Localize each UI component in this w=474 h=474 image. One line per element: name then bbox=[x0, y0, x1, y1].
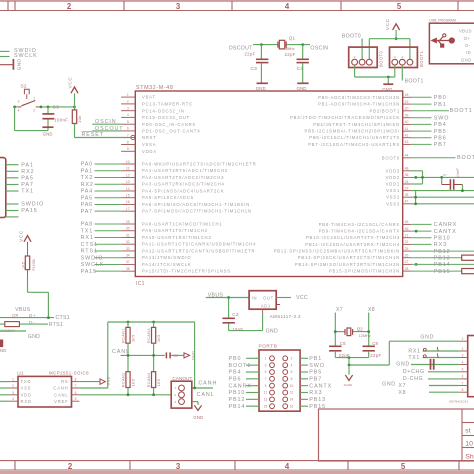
svg-text:BOOT1: BOOT1 bbox=[405, 79, 424, 85]
svg-text:7: 7 bbox=[127, 133, 129, 137]
svg-text:C6: C6 bbox=[340, 341, 346, 346]
svg-text:47: 47 bbox=[405, 200, 409, 204]
svg-text:7: 7 bbox=[265, 377, 267, 381]
svg-text:X8: X8 bbox=[368, 307, 375, 313]
svg-text:PA7: PA7 bbox=[81, 209, 94, 215]
svg-text:RTS1: RTS1 bbox=[81, 249, 98, 255]
svg-text:USB_PROGRAM: USB_PROGRAM bbox=[429, 18, 456, 22]
svg-text:AGND: AGND bbox=[344, 383, 352, 387]
svg-text:8: 8 bbox=[127, 140, 129, 144]
svg-text:1: 1 bbox=[33, 97, 35, 101]
svg-text:SWCLK: SWCLK bbox=[81, 262, 105, 268]
svg-text:PA1: PA1 bbox=[81, 168, 94, 174]
svg-text:40: 40 bbox=[405, 120, 409, 124]
svg-text:10: 10 bbox=[290, 384, 294, 388]
svg-text:1: 1 bbox=[265, 357, 267, 361]
svg-text:C2: C2 bbox=[232, 312, 239, 318]
svg-text:RS: RS bbox=[61, 379, 68, 384]
svg-text:SWO: SWO bbox=[434, 115, 450, 121]
svg-text:PB8-TIM4CH3-I2C1SCL/CANRX: PB8-TIM4CH3-I2C1SCL/CANRX bbox=[319, 222, 400, 227]
svg-text:VSS2: VSS2 bbox=[386, 195, 400, 200]
svg-text:GND: GND bbox=[461, 57, 472, 62]
svg-text:6: 6 bbox=[127, 127, 129, 131]
svg-text:3: 3 bbox=[12, 391, 14, 395]
svg-text:ADJ: ADJ bbox=[261, 304, 271, 309]
svg-text:39: 39 bbox=[405, 114, 409, 118]
svg-text:6: 6 bbox=[75, 391, 77, 395]
svg-text:8: 8 bbox=[291, 377, 293, 381]
svg-text:PB12: PB12 bbox=[434, 249, 451, 255]
svg-text:45: 45 bbox=[405, 220, 409, 224]
svg-text:42: 42 bbox=[405, 134, 409, 138]
svg-text:PA14/JTCK/SWCLK: PA14/JTCK/SWCLK bbox=[142, 262, 192, 267]
svg-text:PA6-SPI1MISO/ADC6/TIM3CH1-TIM1: PA6-SPI1MISO/ADC6/TIM3CH1-TIM1BKIN bbox=[142, 202, 250, 207]
svg-text:2: 2 bbox=[68, 462, 73, 471]
svg-text:PB14: PB14 bbox=[434, 262, 451, 268]
svg-text:22pF: 22pF bbox=[285, 52, 296, 57]
svg-text:GND: GND bbox=[193, 415, 203, 420]
svg-text:37: 37 bbox=[126, 260, 130, 264]
svg-text:PA4-SPI1NSS/ADC4/USART2CK: PA4-SPI1NSS/ADC4/USART2CK bbox=[142, 188, 224, 193]
svg-text:PB9-TIM4CH4-I2C1SDA/CANTX: PB9-TIM4CH4-I2C1SDA/CANTX bbox=[319, 229, 400, 234]
svg-text:22R: 22R bbox=[12, 313, 19, 317]
svg-text:SWCLK: SWCLK bbox=[14, 53, 38, 59]
svg-text:C5: C5 bbox=[53, 104, 60, 109]
svg-text:PB15-SPI2MOSI/TIM1CH3N: PB15-SPI2MOSI/TIM1CH3N bbox=[329, 269, 400, 274]
svg-text:11: 11 bbox=[126, 167, 130, 171]
svg-text:12: 12 bbox=[126, 173, 130, 177]
svg-text:ID: ID bbox=[466, 50, 471, 55]
svg-text:PA7-SPI1MOSI/ADC7/TIM3CH2-TIM1: PA7-SPI1MOSI/ADC7/TIM3CH2-TIM1CH1N bbox=[142, 209, 252, 214]
svg-text:FUSB: FUSB bbox=[32, 259, 36, 271]
svg-text:GND: GND bbox=[382, 87, 392, 92]
svg-text:35: 35 bbox=[405, 193, 409, 197]
svg-text:7: 7 bbox=[462, 381, 464, 385]
svg-text:2: 2 bbox=[291, 357, 293, 361]
svg-text:VBUS: VBUS bbox=[208, 292, 224, 298]
svg-text:BOOT0: BOOT0 bbox=[342, 34, 361, 40]
svg-text:PB5-I2C1SMBAI-TIM3CH2/SPI1MOSI: PB5-I2C1SMBAI-TIM3CH2/SPI1MOSI bbox=[305, 129, 400, 134]
svg-text:PB14: PB14 bbox=[229, 404, 246, 410]
svg-text:VCC: VCC bbox=[18, 230, 24, 242]
svg-text:PA7: PA7 bbox=[21, 182, 34, 188]
svg-text:4: 4 bbox=[18, 109, 20, 113]
svg-text:2: 2 bbox=[462, 347, 464, 351]
svg-text:3: 3 bbox=[176, 2, 181, 11]
svg-text:VCC: VCC bbox=[68, 77, 74, 89]
svg-text:TX1: TX1 bbox=[21, 189, 34, 195]
svg-text:1: 1 bbox=[12, 378, 14, 382]
svg-text:31: 31 bbox=[126, 233, 130, 237]
svg-text:CANTX: CANTX bbox=[309, 383, 332, 389]
svg-text:RX1: RX1 bbox=[408, 349, 420, 355]
svg-text:VDD: VDD bbox=[21, 392, 32, 397]
svg-text:3: 3 bbox=[265, 363, 267, 367]
svg-text:BOOT0: BOOT0 bbox=[382, 155, 400, 160]
svg-text:SWDIO: SWDIO bbox=[21, 202, 44, 208]
svg-text:4: 4 bbox=[12, 397, 14, 401]
svg-text:CANL: CANL bbox=[54, 392, 68, 397]
svg-text:VCC: VCC bbox=[296, 295, 308, 301]
svg-text:PA8: PA8 bbox=[81, 222, 94, 228]
svg-text:VDD1: VDD1 bbox=[386, 182, 400, 187]
svg-text:X7: X7 bbox=[336, 307, 343, 313]
svg-text:CANRX: CANRX bbox=[229, 383, 252, 389]
svg-text:BOOT1: BOOT1 bbox=[450, 108, 473, 114]
svg-text:32: 32 bbox=[126, 240, 130, 244]
svg-text:30: 30 bbox=[126, 227, 130, 231]
svg-text:PB12: PB12 bbox=[229, 397, 246, 403]
svg-text:GND: GND bbox=[382, 381, 396, 387]
svg-text:1: 1 bbox=[127, 93, 129, 97]
svg-text:BOOT1: BOOT1 bbox=[419, 51, 424, 67]
svg-text:S2: S2 bbox=[21, 84, 27, 90]
svg-text:PB6-I2C1SCL/TIM4CH1/USART1TX: PB6-I2C1SCL/TIM4CH1/USART1TX bbox=[309, 135, 400, 140]
svg-text:C9: C9 bbox=[174, 354, 178, 358]
svg-text:8MHz: 8MHz bbox=[286, 47, 295, 51]
svg-text:PB7-I2C1SDA/TIM4CH2-USART1RX: PB7-I2C1SDA/TIM4CH2-USART1RX bbox=[308, 142, 400, 147]
svg-text:5: 5 bbox=[397, 2, 402, 11]
svg-text:25: 25 bbox=[405, 247, 409, 251]
svg-text:3: 3 bbox=[127, 107, 129, 111]
svg-text:14: 14 bbox=[126, 187, 130, 191]
svg-text:PA8-USART1CK/MCO/TIM1CH1: PA8-USART1CK/MCO/TIM1CH1 bbox=[142, 222, 222, 227]
svg-text:1K5: 1K5 bbox=[157, 334, 161, 342]
svg-text:PA15/JTDI-TIM2CH1ETR/SPI1NSS: PA15/JTDI-TIM2CH1ETR/SPI1NSS bbox=[142, 269, 231, 274]
svg-text:PB11-I2C2SDA/USART3RX-TIM2CH4: PB11-I2C2SDA/USART3RX-TIM2CH4 bbox=[305, 242, 400, 247]
svg-text:VSS1: VSS1 bbox=[386, 188, 400, 193]
svg-text:VDDA: VDDA bbox=[142, 149, 157, 154]
svg-text:PA3-USART2RX/ADC3/TIM2CH4: PA3-USART2RX/ADC3/TIM2CH4 bbox=[142, 182, 225, 187]
svg-text:PC13-TAMPER-RTC: PC13-TAMPER-RTC bbox=[142, 102, 193, 107]
svg-text:8: 8 bbox=[462, 388, 464, 392]
svg-text:PA4: PA4 bbox=[81, 189, 94, 195]
svg-text:PB4: PB4 bbox=[434, 122, 447, 128]
svg-text:100nF: 100nF bbox=[54, 118, 68, 123]
svg-text:Q1: Q1 bbox=[289, 35, 296, 40]
svg-text:24: 24 bbox=[405, 180, 409, 184]
svg-text:36: 36 bbox=[405, 173, 409, 177]
svg-text:PB0: PB0 bbox=[229, 356, 242, 362]
svg-text:12MHz: 12MHz bbox=[359, 334, 371, 338]
svg-text:PB3/JTDO-TIM2CH2/TRACESWO/SPI1: PB3/JTDO-TIM2CH2/TRACESWO/SPI1SCK bbox=[290, 115, 400, 120]
svg-text:C8: C8 bbox=[372, 341, 378, 346]
svg-text:NRST: NRST bbox=[142, 135, 157, 140]
svg-text:2: 2 bbox=[12, 384, 14, 388]
svg-text:20: 20 bbox=[405, 107, 409, 111]
svg-text:RX3: RX3 bbox=[309, 390, 322, 396]
svg-text:9: 9 bbox=[265, 384, 267, 388]
svg-text:44: 44 bbox=[405, 154, 409, 158]
svg-text:PB13-SPI2SCK/USART3CTS/TIM1CH1: PB13-SPI2SCK/USART3CTS/TIM1CH1N bbox=[298, 255, 400, 260]
svg-text:BOOT0: BOOT0 bbox=[378, 51, 383, 67]
svg-text:2: 2 bbox=[33, 109, 35, 113]
svg-text:GND: GND bbox=[420, 334, 434, 340]
svg-text:TX2: TX2 bbox=[81, 175, 94, 181]
svg-text:VREF: VREF bbox=[54, 399, 68, 404]
svg-text:22pF: 22pF bbox=[244, 51, 255, 56]
svg-text:CTS1: CTS1 bbox=[56, 315, 70, 321]
svg-text:PA0-WKUP/USART2CTS/ADC0/TIM2CH: PA0-WKUP/USART2CTS/ADC0/TIM2CH1ETR bbox=[142, 162, 257, 167]
svg-text:PA15: PA15 bbox=[21, 208, 37, 214]
svg-text:PB6: PB6 bbox=[229, 377, 242, 383]
svg-text:PA1-USART2RTS/ADC1/TIM2CH2: PA1-USART2RTS/ADC1/TIM2CH2 bbox=[142, 168, 228, 173]
svg-text:PB0-ADC8/TIM3CH3-TIM1CH2N: PB0-ADC8/TIM3CH3-TIM1CH2N bbox=[318, 95, 400, 100]
svg-text:14: 14 bbox=[290, 398, 294, 402]
svg-text:PB15: PB15 bbox=[309, 404, 326, 410]
svg-text:SWO: SWO bbox=[309, 363, 325, 369]
svg-text:D-: D- bbox=[29, 320, 35, 325]
svg-text:RCAN1: RCAN1 bbox=[121, 328, 125, 343]
svg-text:17: 17 bbox=[126, 207, 130, 211]
svg-text:15: 15 bbox=[264, 404, 268, 408]
svg-text:4: 4 bbox=[285, 2, 290, 11]
svg-text:PC15-OSC32_OUT: PC15-OSC32_OUT bbox=[142, 115, 190, 120]
svg-text:PB2/BOOT1: PB2/BOOT1 bbox=[370, 108, 400, 113]
svg-text:PC14-OSC32_IN: PC14-OSC32_IN bbox=[142, 108, 185, 113]
svg-text:GND: GND bbox=[256, 86, 266, 91]
svg-text:Q2: Q2 bbox=[357, 326, 364, 331]
svg-text:PB10-I2C2SCL/USART3TX-TIM2CH3: PB10-I2C2SCL/USART3TX-TIM2CH3 bbox=[306, 235, 400, 240]
svg-text:22pF: 22pF bbox=[370, 353, 381, 358]
svg-text:PA5-SPI1SCK/ADC5: PA5-SPI1SCK/ADC5 bbox=[142, 195, 194, 200]
svg-text:PA5: PA5 bbox=[81, 195, 94, 201]
svg-text:5: 5 bbox=[265, 370, 267, 374]
svg-text:10nF: 10nF bbox=[456, 167, 460, 178]
svg-text:VSS3: VSS3 bbox=[386, 201, 400, 206]
svg-text:RESET: RESET bbox=[82, 132, 104, 138]
svg-text:SWDIO: SWDIO bbox=[81, 255, 104, 261]
svg-text:5: 5 bbox=[401, 462, 406, 471]
svg-text:RX3: RX3 bbox=[434, 242, 447, 248]
svg-text:PA6: PA6 bbox=[81, 202, 94, 208]
svg-text:26: 26 bbox=[405, 254, 409, 258]
svg-text:PB1-ADC9/TIM3CH4-TIM1CH3N: PB1-ADC9/TIM3CH4-TIM1CH3N bbox=[318, 102, 400, 107]
svg-text:2: 2 bbox=[67, 2, 72, 11]
svg-text:6: 6 bbox=[291, 370, 293, 374]
svg-text:U1: U1 bbox=[17, 371, 24, 377]
svg-text:CANH: CANH bbox=[198, 381, 217, 387]
svg-text:RXD: RXD bbox=[21, 399, 32, 404]
svg-text:13: 13 bbox=[264, 398, 268, 402]
svg-text:OUT: OUT bbox=[263, 296, 274, 301]
svg-text:PB7: PB7 bbox=[309, 377, 322, 383]
svg-text:4: 4 bbox=[127, 113, 129, 117]
svg-text:22: 22 bbox=[405, 240, 409, 244]
svg-text:GND: GND bbox=[297, 86, 307, 91]
svg-text:PB14-SPI2MISO/USART3RTS/TIM1CH: PB14-SPI2MISO/USART3RTS/TIM1CH2N bbox=[295, 262, 400, 267]
svg-text:5: 5 bbox=[127, 120, 129, 124]
svg-text:TX1: TX1 bbox=[408, 355, 420, 361]
svg-text:GND: GND bbox=[266, 328, 278, 334]
svg-text:X8: X8 bbox=[399, 390, 407, 396]
svg-text:PB15: PB15 bbox=[434, 269, 451, 275]
svg-text:PB5: PB5 bbox=[434, 129, 447, 135]
svg-text:PB12-SPI2NSS/I2C2SMBA/USART3CK: PB12-SPI2NSS/I2C2SMBA/USART3CK/TIM1BKIN bbox=[274, 249, 400, 254]
svg-text:D+CHG: D+CHG bbox=[403, 369, 425, 375]
svg-text:PB0: PB0 bbox=[434, 95, 447, 101]
svg-text:RTS1: RTS1 bbox=[49, 322, 63, 328]
svg-text:CANL: CANL bbox=[112, 349, 130, 355]
svg-text:PA10-USART1RX/TIM1CH3: PA10-USART1RX/TIM1CH3 bbox=[142, 235, 211, 240]
svg-text:CANOUT: CANOUT bbox=[172, 376, 192, 381]
svg-text:CANRX: CANRX bbox=[434, 222, 457, 228]
svg-text:VBAT: VBAT bbox=[142, 95, 156, 100]
svg-text:16: 16 bbox=[290, 404, 294, 408]
svg-text:46: 46 bbox=[405, 227, 409, 231]
svg-text:5: 5 bbox=[462, 368, 464, 372]
svg-text:GND: GND bbox=[396, 361, 410, 367]
svg-text:RCAN3: RCAN3 bbox=[147, 328, 151, 343]
svg-text:D+: D+ bbox=[29, 313, 36, 318]
svg-text:IN: IN bbox=[252, 296, 257, 301]
svg-text:GND: GND bbox=[17, 59, 22, 71]
svg-text:3: 3 bbox=[18, 100, 20, 104]
svg-text:4: 4 bbox=[285, 462, 290, 471]
svg-text:7: 7 bbox=[75, 384, 77, 388]
svg-text:RCAN2: RCAN2 bbox=[121, 372, 125, 387]
svg-text:16: 16 bbox=[126, 200, 130, 204]
svg-text:6: 6 bbox=[462, 375, 464, 379]
svg-text:PB7: PB7 bbox=[434, 142, 447, 148]
svg-text:10k: 10k bbox=[77, 115, 82, 123]
svg-text:GND: GND bbox=[107, 376, 111, 385]
svg-text:4: 4 bbox=[462, 360, 464, 364]
svg-text:41: 41 bbox=[405, 127, 409, 131]
svg-text:RX2: RX2 bbox=[81, 182, 94, 188]
svg-text:BOOT0: BOOT0 bbox=[457, 155, 474, 161]
svg-text:27: 27 bbox=[405, 260, 409, 264]
svg-text:PB10: PB10 bbox=[229, 390, 246, 396]
svg-text:GND: GND bbox=[28, 334, 40, 340]
svg-text:RX2: RX2 bbox=[21, 169, 34, 175]
svg-text:PA5: PA5 bbox=[21, 176, 34, 182]
svg-text:RCAN4: RCAN4 bbox=[147, 372, 151, 387]
svg-text:VCC: VCC bbox=[385, 18, 391, 30]
svg-text:AMS1117-3.3: AMS1117-3.3 bbox=[270, 314, 301, 319]
svg-text:VDD3: VDD3 bbox=[386, 168, 400, 173]
svg-text:PB10: PB10 bbox=[434, 235, 451, 241]
svg-text:PB4: PB4 bbox=[229, 370, 242, 376]
svg-text:1K5: 1K5 bbox=[131, 334, 135, 342]
svg-text:PORTB: PORTB bbox=[259, 344, 278, 350]
svg-text:2: 2 bbox=[127, 100, 129, 104]
svg-text:12: 12 bbox=[290, 391, 294, 395]
svg-text:19: 19 bbox=[405, 100, 409, 104]
svg-text:CTS1: CTS1 bbox=[81, 242, 98, 248]
svg-text:VSSA: VSSA bbox=[142, 142, 156, 147]
svg-text:GND: GND bbox=[43, 131, 53, 136]
svg-text:34: 34 bbox=[126, 254, 130, 258]
svg-text:MCP2551-SOIC8: MCP2551-SOIC8 bbox=[49, 371, 89, 376]
svg-text:PB13: PB13 bbox=[434, 255, 451, 261]
svg-text:IC1: IC1 bbox=[136, 281, 145, 287]
svg-text:10: 10 bbox=[126, 160, 130, 164]
svg-text:4: 4 bbox=[291, 363, 293, 367]
svg-text:1k5: 1k5 bbox=[22, 262, 26, 269]
svg-text:VSS: VSS bbox=[21, 386, 32, 391]
svg-text:D+: D+ bbox=[464, 36, 470, 41]
svg-text:PA11-USART1CTS/CANRX/USBDM/TIM: PA11-USART1CTS/CANRX/USBDM/TIM1CH4 bbox=[142, 242, 256, 247]
svg-text:PA2-USART2TX/ADC2/TIM2CH3: PA2-USART2TX/ADC2/TIM2CH3 bbox=[142, 175, 224, 180]
svg-text:28: 28 bbox=[405, 267, 409, 271]
svg-text:Sh: Sh bbox=[465, 453, 474, 460]
svg-text:3: 3 bbox=[462, 353, 464, 357]
svg-text:15: 15 bbox=[126, 194, 130, 198]
svg-text:21: 21 bbox=[405, 234, 409, 238]
svg-text:TXD: TXD bbox=[21, 379, 32, 384]
svg-text:BOOT1: BOOT1 bbox=[229, 363, 252, 369]
svg-text:STM32-M-48: STM32-M-48 bbox=[136, 85, 173, 91]
svg-text:11: 11 bbox=[264, 391, 268, 395]
svg-text:ND: ND bbox=[0, 348, 7, 353]
svg-text:PD1-OSC_OUT-CANTX: PD1-OSC_OUT-CANTX bbox=[142, 129, 201, 134]
svg-text:PB5: PB5 bbox=[309, 370, 322, 376]
svg-text:PA15: PA15 bbox=[81, 269, 97, 275]
svg-text:43: 43 bbox=[405, 140, 409, 144]
svg-text:OSCIN: OSCIN bbox=[95, 119, 117, 125]
svg-text:VDD2: VDD2 bbox=[386, 175, 400, 180]
svg-text:st: st bbox=[465, 427, 471, 434]
svg-text:33: 33 bbox=[126, 247, 130, 251]
svg-text:38: 38 bbox=[126, 267, 130, 271]
svg-text:PA0: PA0 bbox=[81, 162, 94, 168]
svg-text:10: 10 bbox=[465, 440, 473, 447]
svg-text:C7: C7 bbox=[443, 173, 447, 177]
svg-text:9: 9 bbox=[127, 147, 129, 151]
svg-text:1K5: 1K5 bbox=[131, 379, 135, 387]
svg-text:CANTX: CANTX bbox=[434, 229, 457, 235]
svg-text:8: 8 bbox=[75, 378, 77, 382]
svg-text:D-CHG: D-CHG bbox=[403, 376, 424, 382]
svg-text:PB4/JNTRST-TIM3CH1/SPI1MISO: PB4/JNTRST-TIM3CH1/SPI1MISO bbox=[313, 122, 400, 127]
svg-text:SN74HC1G14: SN74HC1G14 bbox=[449, 399, 469, 403]
svg-text:PB6: PB6 bbox=[434, 135, 447, 141]
svg-text:10nF: 10nF bbox=[232, 327, 243, 332]
svg-text:C3: C3 bbox=[251, 66, 258, 72]
svg-text:1: 1 bbox=[462, 337, 464, 341]
svg-text:1K5: 1K5 bbox=[157, 379, 161, 387]
svg-text:X7: X7 bbox=[399, 383, 407, 389]
svg-text:18: 18 bbox=[405, 93, 409, 97]
svg-text:CANH: CANH bbox=[53, 386, 68, 391]
svg-text:OSCIN: OSCIN bbox=[310, 45, 328, 51]
svg-text:CANL: CANL bbox=[197, 392, 215, 398]
svg-text:D-: D- bbox=[465, 43, 470, 48]
svg-text:PB1: PB1 bbox=[434, 102, 447, 108]
svg-text:PA9-USART1TX/TIM1CH2: PA9-USART1TX/TIM1CH2 bbox=[142, 228, 208, 233]
svg-text:PA13/JTMS/SWDIO: PA13/JTMS/SWDIO bbox=[142, 255, 191, 260]
svg-text:VBUS: VBUS bbox=[459, 29, 472, 34]
svg-text:PD0-OSC_IN-CANRX: PD0-OSC_IN-CANRX bbox=[142, 122, 196, 127]
svg-text:PB1: PB1 bbox=[309, 356, 322, 362]
svg-text:13: 13 bbox=[126, 180, 130, 184]
svg-text:48: 48 bbox=[405, 167, 409, 171]
svg-text:PA12-USART1RTS/CANTX/USBDP/TIM: PA12-USART1RTS/CANTX/USBDP/TIM1ETR bbox=[142, 248, 255, 253]
svg-text:PA1: PA1 bbox=[21, 162, 34, 168]
svg-text:RX1: RX1 bbox=[81, 235, 94, 241]
svg-text:29: 29 bbox=[126, 220, 130, 224]
svg-text:TX1: TX1 bbox=[81, 228, 94, 234]
svg-text:PB13: PB13 bbox=[309, 397, 326, 403]
svg-text:23: 23 bbox=[405, 186, 409, 190]
svg-text:3: 3 bbox=[176, 462, 181, 471]
svg-text:5: 5 bbox=[75, 397, 77, 401]
